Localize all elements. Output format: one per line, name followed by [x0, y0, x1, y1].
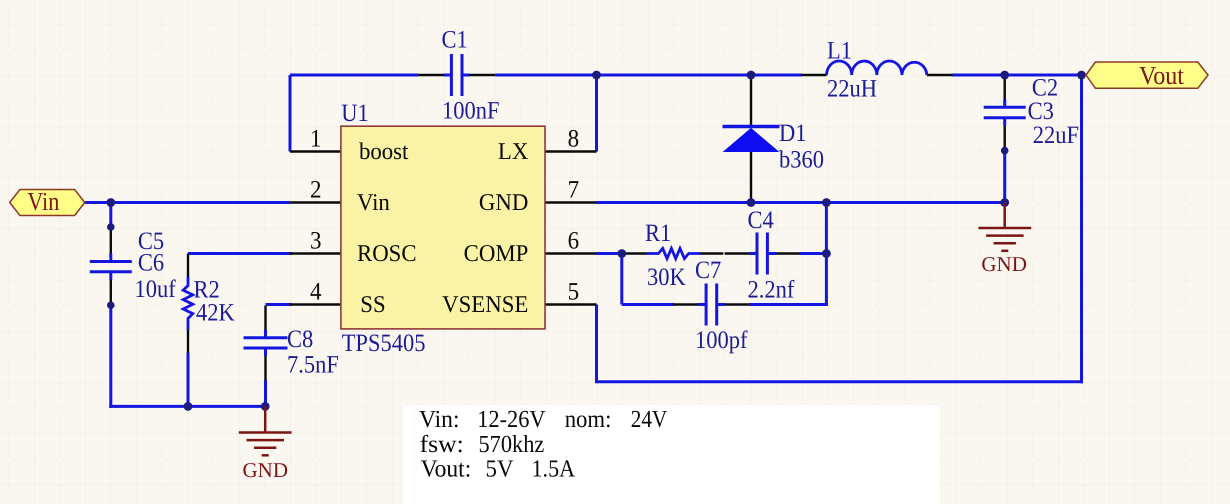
svg-text:SS: SS: [360, 292, 385, 318]
svg-text:100pf: 100pf: [695, 327, 748, 354]
svg-text:L1: L1: [827, 38, 852, 65]
svg-text:GND: GND: [243, 458, 289, 482]
svg-text:100nF: 100nF: [442, 98, 500, 125]
svg-text:C7: C7: [695, 257, 721, 284]
svg-text:COMP: COMP: [464, 241, 529, 267]
svg-text:fsw:570khz: fsw:570khz: [420, 431, 545, 458]
svg-text:C8: C8: [287, 326, 313, 353]
svg-text:boost: boost: [359, 139, 409, 165]
svg-text:5: 5: [568, 279, 580, 306]
svg-text:GND: GND: [479, 190, 528, 216]
svg-text:C4: C4: [748, 207, 775, 234]
svg-text:2: 2: [310, 177, 322, 204]
svg-text:C1: C1: [442, 27, 468, 54]
svg-text:ROSC: ROSC: [357, 241, 417, 267]
svg-text:30K: 30K: [647, 264, 686, 291]
svg-text:7: 7: [568, 177, 580, 204]
svg-text:R1: R1: [645, 220, 671, 247]
svg-text:GND: GND: [981, 252, 1027, 276]
svg-text:Vout: Vout: [1139, 61, 1185, 90]
svg-text:TPS5405: TPS5405: [342, 330, 426, 357]
svg-text:2.2nf: 2.2nf: [748, 277, 795, 304]
svg-text:42K: 42K: [196, 300, 235, 327]
svg-text:1: 1: [310, 126, 322, 153]
svg-text:Vin:12-26Vnom:24V: Vin:12-26Vnom:24V: [419, 406, 668, 433]
svg-text:7.5nF: 7.5nF: [287, 352, 339, 379]
svg-text:Vout:5V1.5A: Vout:5V1.5A: [421, 455, 576, 482]
svg-text:U1: U1: [341, 100, 369, 127]
svg-text:8: 8: [568, 126, 580, 153]
svg-text:C6: C6: [138, 250, 164, 277]
svg-text:D1: D1: [779, 120, 807, 147]
svg-text:22uH: 22uH: [827, 76, 877, 103]
svg-text:6: 6: [568, 228, 580, 255]
svg-text:4: 4: [310, 279, 322, 306]
svg-text:3: 3: [310, 228, 322, 255]
svg-text:22uF: 22uF: [1033, 122, 1079, 149]
svg-text:10uf: 10uf: [134, 276, 176, 303]
svg-text:Vin: Vin: [27, 187, 59, 216]
svg-text:LX: LX: [498, 139, 528, 165]
svg-text:Vin: Vin: [357, 190, 390, 216]
svg-text:b360: b360: [779, 147, 824, 174]
svg-text:VSENSE: VSENSE: [442, 292, 528, 318]
